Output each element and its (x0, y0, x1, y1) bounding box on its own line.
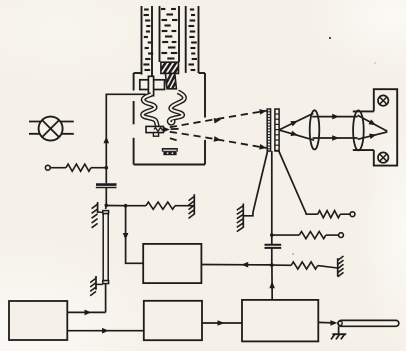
liquid level dashes in dewar tubes (143, 9, 197, 70)
ground G3 (90, 276, 103, 296)
chopper ground (237, 204, 244, 232)
dashed ray lower (170, 132, 267, 150)
chopper centre wire (271, 151, 273, 244)
right squiggle tube (169, 92, 184, 123)
terminal T3 (339, 233, 344, 238)
wire C1 to n2 (105, 188, 107, 206)
capacitor C2 (265, 245, 282, 248)
resistor R1 (50, 164, 106, 171)
chopper strip left (267, 109, 270, 151)
beam exit arrow (163, 127, 170, 132)
box B2 (9, 301, 67, 340)
wire B2 out lower (67, 328, 144, 334)
ground G4 (338, 256, 344, 277)
box B3 (144, 301, 202, 340)
wire to C1 (105, 168, 107, 184)
detector screw bottom (378, 152, 388, 162)
hatched support column (163, 72, 186, 90)
wire B2 out upper (67, 310, 105, 316)
ground G2 (189, 194, 195, 218)
resistor R3 (318, 211, 350, 218)
ray converging lower (358, 132, 388, 139)
wire B4 to pen (318, 320, 337, 326)
junction n4 (270, 233, 274, 237)
wire B1 input (201, 262, 271, 268)
chopper right leg wire (279, 151, 318, 214)
mounting pin (148, 76, 153, 95)
resistor R5 (272, 262, 338, 269)
ground G5 (331, 326, 346, 339)
terminal T2 (350, 212, 355, 217)
wire n3 down to B1 (123, 206, 143, 264)
wire element to corner (105, 284, 107, 313)
left squiggle tube (143, 95, 158, 127)
wire top feed (104, 94, 147, 167)
box B4 (242, 300, 318, 342)
lens 2 (353, 110, 364, 150)
vacuum chamber walls (134, 73, 205, 165)
box B1 (143, 244, 201, 283)
lamp (29, 117, 74, 141)
piezo translator element (103, 206, 109, 284)
dashed ray upper (170, 109, 267, 127)
wire n2-n3 (106, 205, 125, 207)
ray parallel upper (312, 114, 357, 120)
detector screw top (378, 95, 388, 105)
wire n5 to B4 (269, 265, 275, 300)
junction n2 (105, 204, 109, 208)
ground G1 (92, 202, 103, 228)
lens 1 (310, 110, 320, 149)
capacitor C1 (96, 185, 117, 188)
chopper strip right (275, 109, 279, 151)
hatched cold block (158, 61, 188, 75)
ray diverging lower (280, 130, 315, 140)
resistor R2 (126, 202, 195, 209)
wire C2 to n5 (271, 249, 273, 266)
ray diverging upper (280, 113, 314, 129)
resistor R4 (272, 232, 339, 239)
ray parallel lower (313, 135, 358, 141)
dashed ray middle (171, 128, 179, 130)
support bar (140, 80, 165, 90)
terminal T1 (45, 165, 50, 170)
sample stage (162, 148, 178, 155)
wire B3 to B4 (202, 320, 242, 326)
junction n1 (105, 166, 109, 170)
dashed ray steep (170, 138, 177, 140)
dewar tube walls (142, 6, 199, 80)
ray converging upper (358, 115, 388, 131)
detector housing (353, 89, 397, 165)
chopper left leg wire (243, 151, 267, 216)
nozzle source cell (146, 126, 163, 136)
junction n5 (270, 263, 274, 267)
junction n3 (124, 204, 128, 208)
pen recorder (338, 320, 399, 326)
